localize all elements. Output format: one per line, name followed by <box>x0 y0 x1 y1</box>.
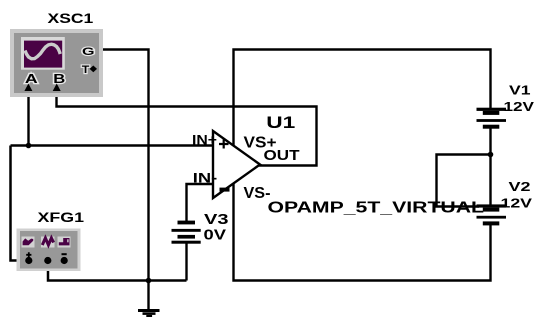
XSC1 body frame <box>10 29 103 97</box>
wire: scope A down to input net <box>27 85 29 146</box>
node: input net junction dot at A wire <box>26 143 32 149</box>
wire: scope B down, to OUT (right angle path) <box>57 85 317 166</box>
XFG1 triangle button <box>41 237 55 248</box>
op-amp U1 triangle <box>213 131 260 198</box>
battery V1 <box>477 108 507 129</box>
svg-text:V2: V2 <box>509 179 531 194</box>
op-amp plus mark <box>219 140 229 149</box>
svg-text:12V: 12V <box>501 196 533 211</box>
battery V3 (flipped) <box>172 221 201 244</box>
svg-text:OPAMP_5T_VIRTUAL: OPAMP_5T_VIRTUAL <box>268 200 485 217</box>
svg-text:VS-: VS- <box>244 185 271 202</box>
function generator XFG1 <box>17 229 81 272</box>
wire: junction to ground symbol <box>147 281 149 310</box>
minus mark on - terminal <box>62 253 67 255</box>
wire: V2 top pin <box>489 155 491 206</box>
op-amp minus mark <box>220 188 230 192</box>
oscilloscope XSC1 <box>10 29 103 97</box>
wire: VS+ stub up, top supply rail to V1 plus <box>234 50 491 147</box>
wire: down-left to XFG1 plus pin <box>11 146 26 261</box>
pin T diamond <box>90 66 97 73</box>
node: ground junction dot <box>146 278 152 284</box>
wire: IN- to V3 top <box>187 184 214 221</box>
wire: V3 bottom pin <box>185 244 187 281</box>
XFG1 sine button <box>22 237 35 248</box>
wire: V1 bottom pin <box>489 129 491 155</box>
XSC1 screen <box>21 37 65 70</box>
battery V2 <box>477 204 507 225</box>
wire: XFG1 middle pin to ground rail <box>48 262 187 281</box>
XFG1 common pin dot <box>44 257 51 264</box>
svg-text:XSC1: XSC1 <box>48 10 94 26</box>
XFG1 minus pin dot <box>61 257 68 264</box>
wire: IN+ input horizontal <box>11 144 214 146</box>
svg-text:U1: U1 <box>266 113 295 132</box>
svg-text:T: T <box>82 64 90 76</box>
plus mark on + terminal <box>26 252 31 257</box>
svg-text:G: G <box>82 46 95 58</box>
XFG1 body frame <box>17 229 81 272</box>
svg-text:OUT: OUT <box>264 147 300 164</box>
ground <box>138 309 160 317</box>
svg-text:IN+: IN+ <box>192 131 217 147</box>
svg-text:XFG1: XFG1 <box>38 209 85 225</box>
svg-text:B: B <box>53 72 65 86</box>
XSC1 screen sine trace <box>25 44 60 59</box>
svg-text:12V: 12V <box>504 99 535 114</box>
XFG1 square button <box>58 237 71 248</box>
wire: scope G to ground net (top horizontal + long vertical) <box>91 50 149 281</box>
wire: V2 bottom pin, bottom rail, VS- stub <box>234 183 491 281</box>
svg-text:V3: V3 <box>204 212 229 228</box>
svg-text:A: A <box>25 72 38 86</box>
node: V1/V2 junction dot <box>488 152 494 158</box>
wire: mid-supply detour loop <box>437 155 491 207</box>
pin A arrowhead <box>24 84 32 92</box>
pin B arrowhead <box>53 84 61 92</box>
XFG1 plus pin dot <box>25 257 32 264</box>
svg-text:0V: 0V <box>204 228 227 244</box>
svg-text:IN-: IN- <box>193 170 218 186</box>
svg-text:V1: V1 <box>509 83 531 98</box>
